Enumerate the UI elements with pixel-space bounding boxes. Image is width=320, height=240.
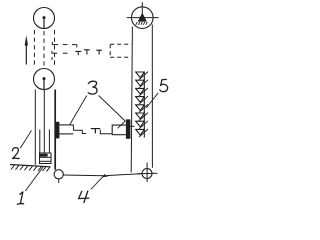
up arrow (25, 35, 28, 64)
leader 3 right arrow flick (118, 121, 126, 128)
leader for 1 (25, 167, 43, 191)
label 3 (88, 81, 97, 94)
label 2 (12, 148, 19, 159)
left mast solid edge (right, thick) (54, 90, 56, 170)
leader for 5 (146, 93, 158, 108)
carriage black bar left (56, 122, 59, 139)
pulley P1 (top-left) (34, 8, 55, 29)
right mast left edge (131, 27, 132, 173)
counterweight box (40, 153, 52, 164)
left mast dashed edge (right) (54, 30, 56, 68)
step shape left (73, 130, 86, 133)
leader for 2 (20, 131, 31, 149)
carriage black bar right (126, 119, 130, 138)
phantom T hanger 3 (96, 50, 102, 54)
rope solid (43, 90, 45, 154)
left mast solid edge (left) (34, 90, 36, 165)
left mast dashed edge (left) (33, 30, 35, 68)
label 1 (17, 192, 23, 205)
fork rect right (112, 125, 126, 135)
fork left bottom prong (59, 133, 73, 135)
leader for 4 (91, 174, 105, 189)
wheel W2 (bottom-right) (138, 163, 158, 183)
wheel W1 (bottom-left) (54, 170, 63, 183)
dashed row 2 (52, 51, 68, 60)
saw rack back line (143, 72, 145, 138)
leader 4 tick (103, 175, 108, 178)
fork left top prong (59, 124, 73, 126)
dashed row 1 (52, 42, 77, 48)
saw rack teeth (136, 72, 145, 135)
right mast right edge (151, 25, 153, 168)
phantom T hanger 1 (75, 51, 81, 55)
ground line with hatching (10, 165, 51, 172)
inner guide right (48, 130, 50, 154)
fork left end vertical (72, 125, 74, 130)
leader 3 right (99, 96, 126, 122)
leader 3 left (70, 96, 87, 125)
saw rack hatch ticks (139, 72, 148, 137)
step shape right (100, 130, 112, 134)
dashed rectangle (110, 44, 131, 57)
tick right of bar (130, 125, 134, 127)
rope dashed (center) (43, 31, 45, 67)
base line (63, 174, 142, 176)
phantom T hanger 2 (84, 50, 90, 55)
pulley P3 (top-right) with fixed mount (127, 2, 159, 28)
label 4 (79, 191, 89, 203)
inner guide left (39, 130, 41, 154)
pulley P2 (mid-left) (34, 69, 55, 90)
label 5 (160, 79, 168, 91)
T hanger middle (91, 129, 100, 134)
